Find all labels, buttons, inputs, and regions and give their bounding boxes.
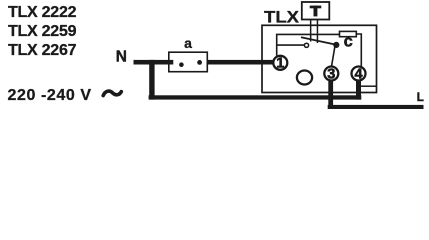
svg-text:3: 3 bbox=[327, 66, 335, 82]
wire from switch a to terminal 1 bbox=[198, 60, 274, 65]
sensor T label bbox=[310, 6, 322, 9]
svg-text:a: a bbox=[184, 35, 192, 51]
svg-text:N: N bbox=[116, 49, 127, 66]
terminal 4 bbox=[352, 67, 366, 81]
wire neutral bottom horizontal to terminal 4 bbox=[149, 95, 362, 99]
svg-text:220 -240 V: 220 -240 V bbox=[8, 87, 92, 104]
AC symbol bbox=[103, 91, 121, 96]
svg-text:TLX 2267: TLX 2267 bbox=[8, 42, 77, 59]
sensor T box bbox=[302, 2, 330, 20]
wire terminal 1 to open contact bbox=[277, 44, 305, 46]
thermostat unit box bbox=[262, 25, 377, 92]
switch a left contact dot bbox=[179, 62, 184, 67]
switch closed contact dot bbox=[333, 42, 339, 48]
wire N branch vertical bbox=[149, 60, 154, 100]
capillary line left bbox=[310, 20, 312, 42]
switch blade bbox=[301, 37, 336, 45]
internal link terminal 1 riser bbox=[277, 34, 340, 55]
svg-text:TLX: TLX bbox=[264, 7, 300, 26]
wire L bottom horizontal bbox=[328, 105, 424, 109]
inner notch segment above box bottom right bbox=[361, 85, 377, 87]
internal link resistor to terminal 4 bbox=[356, 34, 361, 67]
wire N horizontal into switch a bbox=[134, 60, 174, 65]
switch a left wire stub bbox=[169, 60, 174, 65]
svg-text:TLX 2259: TLX 2259 bbox=[8, 23, 77, 40]
switch open contact bbox=[304, 43, 308, 47]
svg-text:4: 4 bbox=[354, 66, 362, 82]
svg-text:L: L bbox=[417, 92, 424, 104]
svg-text:TLX 2222: TLX 2222 bbox=[8, 4, 77, 21]
switch a box bbox=[169, 52, 208, 71]
resistor c bbox=[340, 31, 357, 36]
switch a right contact dot bbox=[197, 60, 202, 65]
wire terminal 4 drop bbox=[356, 80, 361, 99]
terminal unused bbox=[297, 71, 312, 85]
capillary line right bbox=[317, 20, 319, 44]
terminal 1 bbox=[273, 56, 287, 70]
terminal 3 bbox=[324, 67, 338, 81]
wire terminal 3 drop bbox=[328, 80, 333, 109]
wire contact dot to terminal 3 bbox=[332, 47, 335, 67]
svg-text:1: 1 bbox=[276, 56, 284, 72]
svg-text:c: c bbox=[344, 32, 353, 50]
